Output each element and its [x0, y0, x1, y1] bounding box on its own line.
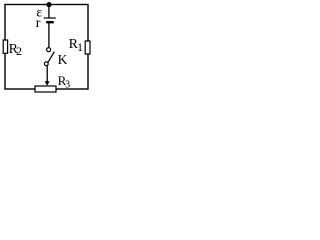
- switch K: bottom contact circle: [44, 62, 48, 66]
- wire: battery negative plate down to switch: [48, 23, 50, 47]
- battery cell: long positive plate: [44, 17, 56, 19]
- switch K: lever arm (open): [48, 52, 55, 63]
- svg-text:r: r: [36, 16, 41, 31]
- resistor R1 body: [85, 41, 90, 54]
- resistor R2 body: [3, 40, 7, 53]
- node: junction dot on top rail: [46, 2, 51, 7]
- rheostat slider arrow: [45, 81, 50, 86]
- svg-text:R3: R3: [58, 73, 71, 90]
- svg-text:K: K: [58, 52, 68, 67]
- svg-text:R1: R1: [69, 37, 83, 54]
- battery cell: short negative plate: [46, 21, 54, 23]
- switch K: top contact circle: [47, 48, 51, 52]
- wire: outer rectangular loop: [5, 5, 88, 90]
- wire: switch down to rheostat slider: [46, 66, 48, 82]
- rheostat R3 body: [35, 86, 56, 92]
- wire: junction dot down to battery positive plate: [48, 5, 50, 18]
- svg-text:R2: R2: [9, 42, 22, 58]
